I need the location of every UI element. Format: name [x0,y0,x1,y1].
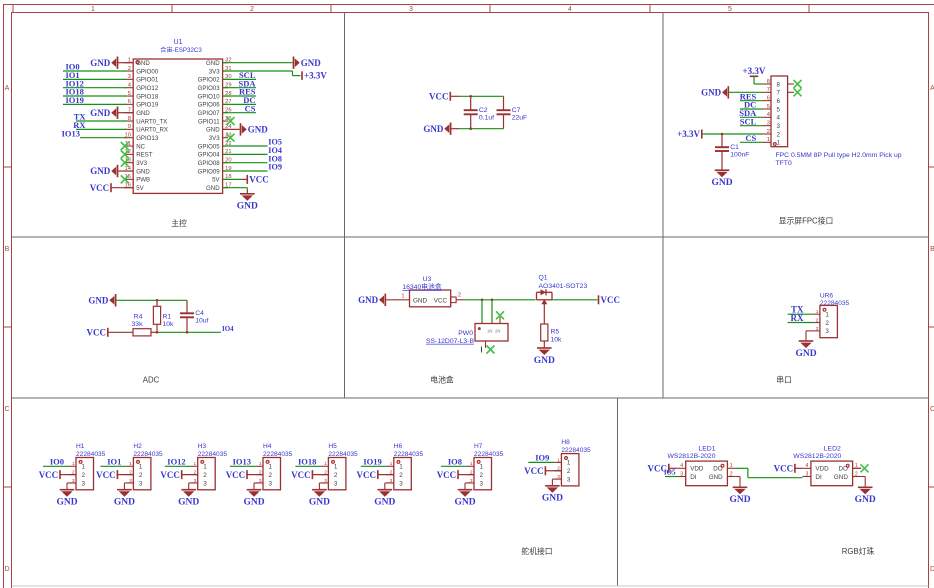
svg-text:1: 1 [82,464,86,471]
svg-text:VCC: VCC [524,466,544,476]
svg-text:22284035: 22284035 [133,451,163,458]
svg-text:2: 2 [458,292,461,298]
svg-text:5: 5 [777,106,781,113]
svg-text:3: 3 [203,480,207,487]
svg-text:B: B [5,246,10,253]
svg-text:4: 4 [680,463,683,469]
svg-text:R5: R5 [551,329,560,336]
svg-text:LED2: LED2 [824,445,841,452]
svg-text:1: 1 [730,463,733,469]
svg-text:D: D [4,566,9,573]
svg-text:U3: U3 [423,276,432,283]
svg-text:2: 2 [139,472,143,479]
svg-text:1: 1 [334,464,338,471]
svg-text:3V3: 3V3 [209,135,220,142]
svg-text:2: 2 [203,472,207,479]
svg-text:PWB: PWB [136,177,150,184]
svg-text:GPIO00: GPIO00 [136,68,159,75]
svg-text:NC: NC [136,143,145,150]
svg-text:3V3: 3V3 [136,160,147,167]
svg-text:VCC: VCC [429,92,449,102]
svg-text:3: 3 [269,480,273,487]
svg-text:电池盒: 电池盒 [430,375,454,385]
svg-text:1: 1 [129,461,132,467]
svg-text:1: 1 [259,461,262,467]
svg-text:10k: 10k [551,337,563,344]
svg-text:5V: 5V [212,177,220,184]
svg-text:2: 2 [82,472,86,479]
svg-text:2: 2 [128,66,131,72]
svg-text:U1: U1 [174,39,183,46]
svg-text:1N: 1N [487,329,492,334]
svg-text:GND: GND [454,498,475,508]
svg-text:6: 6 [777,98,781,105]
svg-text:UART0_RX: UART0_RX [136,127,168,134]
svg-text:H6: H6 [394,443,403,450]
svg-text:3: 3 [139,480,143,487]
svg-text:1: 1 [139,464,143,471]
svg-text:+3.3V: +3.3V [304,71,327,81]
svg-text:IO9: IO9 [268,163,282,172]
svg-text:UART0_TX: UART0_TX [136,118,167,125]
svg-text:1: 1 [91,6,95,13]
svg-text:串口: 串口 [776,376,792,385]
svg-text:3V3: 3V3 [209,68,220,75]
svg-text:GPIO13: GPIO13 [136,135,159,142]
svg-text:GPIO12: GPIO12 [136,85,159,92]
svg-text:GND: GND [711,178,732,188]
svg-text:GND: GND [309,498,330,508]
svg-text:H2: H2 [133,443,142,450]
svg-text:GPIO18: GPIO18 [136,93,159,100]
svg-text:6: 6 [767,95,770,101]
svg-text:RGB灯珠: RGB灯珠 [842,546,875,556]
svg-text:VCC: VCC [434,298,448,305]
svg-text:1: 1 [825,312,829,319]
svg-text:CS: CS [245,103,256,113]
svg-text:VCC: VCC [160,470,180,480]
svg-text:GND: GND [90,58,111,68]
svg-text:VCC: VCC [90,183,110,193]
svg-text:16340电池盒: 16340电池盒 [402,282,441,291]
svg-text:GND: GND [90,108,111,118]
svg-text:GND: GND [56,498,77,508]
svg-text:IO0: IO0 [50,457,64,467]
svg-text:2: 2 [825,320,829,327]
svg-text:A: A [930,85,934,92]
svg-text:GPIO02: GPIO02 [198,77,221,84]
svg-text:2N: 2N [495,329,500,334]
svg-text:8: 8 [128,116,131,122]
svg-text:GPIO08: GPIO08 [198,160,221,167]
svg-text:3: 3 [334,480,338,487]
svg-text:22284035: 22284035 [394,451,424,458]
svg-text:IO18: IO18 [298,457,316,467]
svg-text:REST: REST [136,152,153,159]
svg-text:GND: GND [729,495,750,505]
svg-text:B: B [930,246,934,253]
svg-text:1: 1 [203,464,207,471]
svg-text:DO: DO [838,466,848,473]
svg-text:C7: C7 [512,107,521,114]
svg-text:10k: 10k [163,321,175,328]
svg-text:TFT0: TFT0 [776,160,792,167]
svg-text:合宙-ESP32C3: 合宙-ESP32C3 [160,46,202,54]
svg-text:1: 1 [480,464,484,471]
svg-text:1: 1 [816,309,819,315]
svg-text:3: 3 [567,476,571,483]
svg-text:GPIO03: GPIO03 [198,85,221,92]
svg-text:22284035: 22284035 [198,451,228,458]
svg-text:2: 2 [777,131,781,138]
svg-text:IO13: IO13 [62,128,80,138]
svg-text:IO19: IO19 [66,95,84,105]
svg-text:22284035: 22284035 [76,451,106,458]
svg-text:2: 2 [816,317,819,323]
svg-text:VDD: VDD [815,466,829,473]
svg-text:22284035: 22284035 [328,451,358,458]
svg-text:33k: 33k [132,321,144,328]
svg-text:10uf: 10uf [195,318,208,325]
svg-text:3: 3 [409,6,413,13]
svg-text:FPC 0.5MM 8P Pull type H2.0mm: FPC 0.5MM 8P Pull type H2.0mm Pick up [776,152,902,159]
svg-text:VCC: VCC [601,295,621,305]
svg-text:2: 2 [730,471,733,477]
svg-text:GND: GND [413,298,427,305]
svg-text:2: 2 [399,472,403,479]
svg-text:C: C [4,406,9,413]
svg-text:GND: GND [855,495,876,505]
svg-text:GPIO11: GPIO11 [198,118,220,125]
svg-text:GND: GND [206,185,220,192]
svg-text:H4: H4 [263,443,272,450]
svg-text:C1: C1 [730,144,739,151]
svg-text:PW0: PW0 [458,330,473,337]
svg-text:3: 3 [82,480,86,487]
svg-text:7: 7 [767,87,770,93]
svg-text:主控: 主控 [171,218,187,228]
svg-text:1: 1 [777,140,781,147]
svg-text:DO: DO [713,466,723,473]
svg-text:LED1: LED1 [698,445,715,452]
svg-text:VCC: VCC [249,175,268,185]
svg-text:C2: C2 [479,107,488,114]
svg-text:IO1: IO1 [107,457,121,467]
svg-text:WS2812B-2020: WS2812B-2020 [668,453,716,460]
svg-text:0.1uf: 0.1uf [479,115,494,122]
svg-text:GPIO04: GPIO04 [198,152,221,159]
svg-text:GND: GND [709,474,723,481]
svg-text:6: 6 [128,99,131,105]
svg-text:VCC: VCC [226,470,246,480]
svg-text:CS: CS [745,133,756,143]
svg-text:1: 1 [324,461,327,467]
svg-text:5: 5 [128,91,131,97]
svg-text:DI: DI [815,474,822,481]
svg-text:2: 2 [767,129,770,135]
svg-text:GND: GND [542,494,563,504]
svg-text:SS-12D07-L3-B: SS-12D07-L3-B [426,338,474,345]
svg-text:22284035: 22284035 [263,451,293,458]
svg-text:H5: H5 [328,443,337,450]
svg-text:GND: GND [358,295,379,305]
svg-text:8: 8 [777,81,781,88]
svg-text:GND: GND [534,356,555,366]
svg-text:IO19: IO19 [363,457,381,467]
svg-text:1: 1 [72,461,75,467]
svg-text:2: 2 [855,471,858,477]
svg-text:+3.3V: +3.3V [677,129,700,139]
svg-text:GPIO06: GPIO06 [198,102,221,109]
svg-text:1: 1 [401,293,404,299]
svg-text:GND: GND [206,127,220,134]
svg-text:22284035: 22284035 [474,451,504,458]
svg-text:UR6: UR6 [820,293,834,300]
svg-text:VCC: VCC [774,464,794,474]
svg-text:SCL: SCL [740,116,757,126]
svg-text:GPIO01: GPIO01 [136,77,159,84]
svg-text:舵机接口: 舵机接口 [521,546,552,556]
svg-text:IO5: IO5 [664,469,676,477]
svg-text:9: 9 [128,124,131,130]
svg-text:22284035: 22284035 [561,447,591,454]
svg-text:VCC: VCC [96,470,116,480]
svg-text:5: 5 [728,6,732,13]
svg-text:4: 4 [568,6,572,13]
svg-text:100nF: 100nF [730,152,749,159]
svg-text:IO8: IO8 [448,457,462,467]
svg-text:1: 1 [390,461,393,467]
svg-text:GND: GND [136,60,150,67]
svg-text:ADC: ADC [143,376,160,385]
svg-text:1: 1 [557,457,560,463]
svg-text:GND: GND [237,202,258,212]
svg-text:3: 3 [816,326,819,332]
svg-text:1: 1 [399,464,403,471]
svg-text:IO12: IO12 [167,457,185,467]
svg-text:2: 2 [269,472,273,479]
svg-text:R4: R4 [134,314,143,321]
svg-text:GPIO07: GPIO07 [198,110,221,117]
svg-text:GND: GND [136,168,150,175]
svg-text:GND: GND [90,166,111,176]
svg-text:4: 4 [806,463,809,469]
svg-text:VCC: VCC [437,470,457,480]
svg-text:3: 3 [767,120,770,126]
svg-text:H7: H7 [474,443,483,450]
svg-text:+3.3V: +3.3V [743,66,766,76]
svg-text:1: 1 [767,137,770,143]
svg-text:GND: GND [374,498,395,508]
svg-text:GPIO09: GPIO09 [198,168,221,175]
svg-text:R1: R1 [163,314,172,321]
svg-text:2: 2 [250,6,254,13]
svg-text:RX: RX [791,313,804,323]
svg-text:2: 2 [480,472,484,479]
svg-text:GND: GND [301,58,322,68]
svg-text:GND: GND [136,110,150,117]
svg-text:H8: H8 [561,439,570,446]
svg-text:5: 5 [767,104,770,110]
svg-text:C4: C4 [195,310,204,317]
svg-text:GPIO05: GPIO05 [198,143,221,150]
svg-text:1: 1 [194,461,197,467]
svg-text:VCC: VCC [291,470,311,480]
svg-text:VCC: VCC [87,328,107,338]
svg-text:Q1: Q1 [539,275,548,282]
svg-text:H1: H1 [76,443,85,450]
svg-text:GND: GND [178,498,199,508]
svg-text:GPIO10: GPIO10 [198,93,221,100]
svg-text:VDD: VDD [690,466,704,473]
svg-text:H3: H3 [198,443,207,450]
svg-text:GPIO19: GPIO19 [136,102,159,109]
svg-text:GND: GND [834,474,848,481]
svg-text:3: 3 [806,471,809,477]
svg-text:GND: GND [423,124,444,134]
svg-text:3: 3 [777,123,781,130]
svg-text:VCC: VCC [39,470,59,480]
svg-text:GND: GND [248,125,269,135]
svg-text:显示屏FPC接口: 显示屏FPC接口 [779,216,834,226]
svg-text:2: 2 [567,468,571,475]
svg-text:A: A [5,85,10,92]
svg-text:3: 3 [128,74,131,80]
svg-text:D: D [930,566,934,573]
svg-text:22uF: 22uF [512,115,528,122]
svg-text:GND: GND [114,498,135,508]
svg-text:IO9: IO9 [535,453,549,463]
svg-text:1: 1 [567,460,571,467]
svg-text:4: 4 [777,115,781,122]
svg-text:C: C [930,406,934,413]
svg-text:GND: GND [88,296,109,306]
svg-text:IO4: IO4 [222,325,234,333]
svg-text:AO3401-SOT23: AO3401-SOT23 [539,283,588,290]
svg-text:1: 1 [470,461,473,467]
svg-text:8: 8 [767,79,770,85]
svg-text:7: 7 [777,90,781,97]
svg-text:3: 3 [480,480,484,487]
svg-text:2: 2 [334,472,338,479]
svg-text:3: 3 [825,328,829,335]
svg-text:5V: 5V [136,185,144,192]
svg-text:3: 3 [680,471,683,477]
svg-text:DI: DI [690,474,697,481]
svg-text:1: 1 [269,464,273,471]
svg-text:GND: GND [795,349,816,359]
svg-text:GND: GND [701,88,722,98]
svg-text:IO13: IO13 [233,457,251,467]
svg-text:WS2812B-2020: WS2812B-2020 [793,453,841,460]
svg-text:GND: GND [243,498,264,508]
svg-text:GND: GND [206,60,220,67]
svg-text:VCC: VCC [357,470,377,480]
svg-text:3: 3 [399,480,403,487]
